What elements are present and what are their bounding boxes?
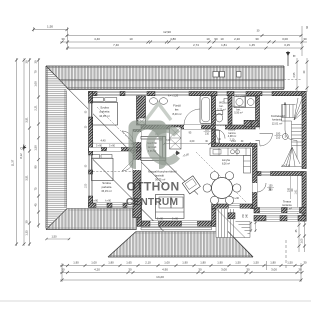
steps feature block (228, 213, 235, 219)
toilet (216, 111, 223, 115)
dashed slope diagonal upper (97, 107, 140, 150)
slope diagonal bedroom2 (89, 156, 137, 204)
dining table (212, 178, 233, 199)
svg-text:150: 150 (269, 185, 274, 188)
svg-text:1,72 m²: 1,72 m² (217, 109, 226, 112)
door arc hallway (260, 134, 273, 147)
washing machine (234, 97, 245, 108)
svg-text:h +90: h +90 (105, 201, 112, 203)
X shaft box wall end (138, 118, 146, 125)
faint fold line bottom (0, 300, 311, 302)
top exterior wall (89, 92, 307, 96)
svg-text:1,90: 1,90 (217, 261, 223, 265)
svg-text:1,81: 1,81 (221, 43, 227, 47)
svg-text:ker.: ker. (175, 108, 180, 112)
svg-text:8,26 m²: 8,26 m² (222, 162, 230, 165)
svg-text:5,50 m²: 5,50 m² (234, 111, 243, 114)
watermark OC monogram O (129, 121, 167, 170)
svg-text:2,20: 2,20 (234, 37, 240, 41)
svg-text:WC: WC (219, 101, 224, 105)
svg-text:kerámia: kerámia (272, 118, 282, 122)
svg-text:parketta: parketta (102, 185, 112, 189)
bottom-middle roof band (108, 232, 253, 258)
svg-text:1,80: 1,80 (200, 261, 206, 265)
svg-text:30: 30 (298, 268, 302, 272)
svg-text:3,00: 3,00 (271, 268, 277, 272)
watermark roof chevron (146, 104, 171, 121)
svg-text:parketta: parketta (100, 110, 110, 114)
svg-text:210: 210 (205, 133, 210, 136)
right mid rotated dims (290, 176, 292, 199)
corner terrace steps (216, 209, 250, 238)
svg-text:75: 75 (34, 187, 38, 190)
kitchen counter right (244, 156, 251, 174)
svg-text:10: 10 (206, 37, 210, 41)
svg-text:2,10: 2,10 (145, 261, 151, 265)
bottom dimension row 1 (60, 265, 302, 267)
svg-text:30: 30 (61, 37, 65, 41)
sofa (156, 195, 185, 219)
svg-text:3,00: 3,00 (282, 37, 288, 41)
top dimension row 2 (12,90) (66, 35, 302, 37)
door arc bedroom1 (122, 131, 133, 142)
svg-text:2,21: 2,21 (34, 105, 38, 111)
svg-text:1,00: 1,00 (91, 261, 97, 265)
svg-text:90: 90 (34, 165, 38, 168)
wall bedroom1/bedroom2 (89, 148, 142, 152)
svg-text:11,37: 11,37 (11, 159, 15, 166)
bathtub (200, 96, 212, 124)
svg-text:30: 30 (198, 268, 202, 272)
svg-text:3,51: 3,51 (25, 117, 29, 123)
staircase top winder fan (294, 98, 306, 120)
bed bedroom1 (92, 103, 118, 126)
door arc bedroom2 (122, 160, 133, 171)
svg-text:70: 70 (34, 70, 38, 73)
right dims bottom (298, 221, 300, 252)
svg-text:10: 10 (129, 37, 133, 41)
svg-text:1,80: 1,80 (108, 261, 114, 265)
svg-text:1,00: 1,00 (301, 238, 304, 243)
bedroom2 bottom wall (89, 203, 142, 208)
svg-text:5 +90: 5 +90 (157, 219, 164, 221)
corner steps white underlay (216, 209, 250, 238)
svg-text:7,40: 7,40 (113, 43, 119, 47)
svg-text:8,12: 8,12 (19, 153, 23, 159)
top dimension row 1 (1,50) (33, 29, 68, 31)
svg-text:13,20: 13,20 (156, 275, 164, 279)
svg-text:30: 30 (128, 268, 132, 272)
top dimension row 3 (60, 41, 307, 43)
svg-text:1,00: 1,00 (34, 81, 38, 87)
corner bay wall (212, 204, 253, 209)
svg-text:1,50: 1,50 (34, 145, 38, 151)
staircase middle flight treads (292, 121, 303, 147)
svg-text:8,91 m²: 8,91 m² (283, 206, 292, 210)
svg-text:h = +1,20: h = +1,20 (236, 96, 246, 98)
svg-text:45: 45 (34, 203, 38, 206)
left exterior wall (89, 92, 93, 208)
svg-text:1,80: 1,80 (270, 261, 276, 265)
attic slope diagonal main (69, 89, 165, 185)
svg-text:120: 120 (205, 129, 210, 132)
corner connector wall (212, 209, 216, 227)
hip diagonals bottom-middle (108, 232, 136, 258)
svg-text:2,74: 2,74 (193, 43, 199, 47)
living room bottom wall (141, 221, 216, 226)
svg-text:Szoba: Szoba (102, 181, 111, 185)
door arc terrace (257, 183, 266, 192)
svg-text:3,51: 3,51 (25, 175, 29, 181)
chairs (210, 172, 218, 180)
svg-text:12,01 m²: 12,01 m² (272, 122, 283, 126)
bottom-left roof band (46, 209, 137, 230)
svg-text:5 +90: 5 +90 (172, 219, 179, 221)
bottom risers (61, 263, 63, 282)
bottom dimension row 3 (60, 279, 302, 281)
staircase bottom winder fan (281, 147, 302, 167)
svg-text:Fürdő: Fürdő (173, 104, 181, 108)
stair walk line (285, 102, 297, 159)
svg-text:1,50: 1,50 (287, 261, 293, 265)
svg-text:1,65: 1,65 (126, 261, 132, 265)
terrace right wall (302, 172, 306, 222)
wardrobe room walls (141, 137, 166, 140)
svg-text:16,35 m²: 16,35 m² (99, 114, 110, 118)
staircase upper flight treads (282, 105, 296, 122)
dashed line top right (284, 79, 302, 81)
wall utility/hallway (256, 96, 260, 129)
left roof band (46, 67, 67, 229)
svg-text:laminált: laminált (155, 174, 164, 178)
svg-text:1,61: 1,61 (295, 189, 298, 194)
corridor wall vertical (133, 130, 141, 218)
wall bathroom/wc (212, 96, 216, 125)
left vertical dimension lines (16, 58, 18, 246)
svg-text:1,00: 1,00 (164, 261, 170, 265)
svg-text:2,95: 2,95 (293, 72, 296, 77)
svg-text:1,90: 1,90 (182, 261, 188, 265)
bottom dimension row 2 (60, 272, 302, 274)
right exterior wall (302, 92, 306, 169)
svg-text:Közlekedő: Közlekedő (271, 114, 285, 118)
svg-text:15,15 m²: 15,15 m² (101, 189, 112, 193)
svg-text:30: 30 (303, 37, 307, 41)
terrace top wall (257, 172, 302, 176)
svg-text:210: 210 (276, 136, 281, 140)
armchair rotated (182, 176, 200, 194)
wall wc/utility (228, 96, 232, 125)
watermark OC monogram C (146, 125, 180, 166)
bed bedroom2 (92, 158, 114, 180)
roof hip diagonal top-left (46, 66, 69, 89)
cupboard blocks utility room (244, 120, 251, 127)
wall hallway/living (253, 146, 258, 209)
top dimension row 4 (66, 47, 302, 49)
svg-text:30: 30 (303, 261, 307, 265)
door arc wc (216, 130, 225, 139)
svg-text:1,50: 1,50 (51, 235, 57, 239)
svg-text:10: 10 (220, 37, 224, 41)
door arc bathroom (184, 109, 200, 125)
terrace bottom wall (254, 216, 306, 222)
closet cabinet kamra (214, 131, 220, 144)
kitchen counter top (210, 148, 251, 156)
svg-text:1,45: 1,45 (249, 43, 255, 47)
svg-text:h +90: h +90 (92, 201, 99, 203)
living-corridor step wall (137, 203, 142, 226)
svg-text:CENTRUM: CENTRUM (126, 197, 178, 208)
svg-text:2,00: 2,00 (190, 140, 195, 143)
svg-text:1,50: 1,50 (86, 183, 88, 188)
svg-text:30: 30 (34, 60, 38, 63)
svg-text:100: 100 (276, 132, 281, 136)
svg-text:8,40 m²: 8,40 m² (172, 112, 181, 116)
svg-text:OTTHON: OTTHON (126, 180, 179, 194)
svg-text:1,50: 1,50 (235, 261, 241, 265)
svg-text:h +2,10: h +2,10 (282, 165, 291, 168)
svg-text:90: 90 (214, 37, 218, 41)
svg-text:30: 30 (25, 220, 29, 223)
wall bedroom1/bathroom (137, 96, 146, 125)
svg-text:4,20: 4,20 (94, 268, 100, 272)
wall below bathroom row (141, 125, 256, 129)
pantry walls (212, 130, 216, 147)
top roof band (46, 66, 284, 89)
hallway door gap and leaf (256, 127, 260, 141)
svg-text:1,50: 1,50 (47, 25, 53, 29)
svg-text:4,40: 4,40 (94, 37, 100, 41)
svg-text:4,80: 4,80 (170, 37, 176, 41)
svg-text:2,10: 2,10 (231, 140, 236, 143)
svg-text:h +90: h +90 (233, 198, 240, 200)
svg-text:kerámia: kerámia (282, 203, 292, 207)
X shaft box corridor (170, 127, 182, 149)
section marker A (287, 51, 289, 66)
svg-text:3,15: 3,15 (284, 43, 290, 47)
right dims top (296, 58, 298, 92)
svg-text:5 +90: 5 +90 (109, 145, 116, 147)
left dim ticks (15, 59, 18, 62)
chimney blocks on roof band (213, 72, 219, 78)
svg-text:1,90: 1,90 (73, 261, 79, 265)
interior dim 4,40 (92, 142, 134, 144)
band2 mitre line over steps (228, 232, 253, 258)
svg-text:4,90: 4,90 (162, 268, 168, 272)
dashed ceiling line bedroom2 (89, 171, 133, 173)
svg-text:1,50: 1,50 (253, 261, 259, 265)
valley diagonal left of living room (141, 209, 164, 232)
dashed slope diagonal living room (196, 152, 247, 203)
svg-text:5 +90: 5 +90 (96, 145, 103, 147)
svg-text:Szoba: Szoba (100, 106, 109, 110)
small dim lines left of terrace wall (250, 222, 252, 233)
svg-text:4,40: 4,40 (100, 139, 106, 143)
svg-text:30: 30 (255, 37, 259, 41)
terrace balustrade wall (254, 208, 306, 214)
dimension risers top (67, 27, 69, 50)
svg-text:12,90: 12,90 (163, 30, 171, 34)
slope diagonal living room (153, 150, 198, 195)
svg-text:3,00: 3,00 (221, 268, 227, 272)
interior dim 1,50 (46, 238, 70, 240)
svg-text:30: 30 (25, 60, 29, 63)
hip diagonal bottom-left (46, 209, 67, 230)
svg-text:h = +1,20: h = +1,20 (168, 94, 179, 97)
svg-text:Nappali-konyha-étkező: Nappali-konyha-étkező (148, 170, 177, 174)
terrace sill strip (141, 226, 212, 228)
svg-text:1,35: 1,35 (25, 230, 29, 236)
washbasin (150, 98, 158, 105)
svg-text:30: 30 (246, 268, 250, 272)
dashed vertical below terrace (285, 240, 287, 268)
